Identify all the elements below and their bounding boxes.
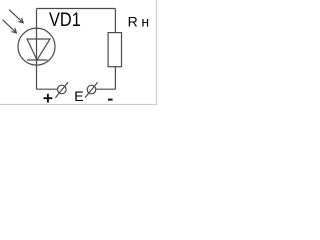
photodiode VD1 cathode bar (27, 59, 48, 61)
svg-text:н: н (141, 14, 149, 30)
wire right vertical from top to resistor (114, 9, 116, 33)
photodiode VD1 circle (18, 28, 55, 65)
minus sign (108, 99, 113, 101)
svg-text:E: E (74, 88, 83, 104)
photodiode VD1 triangle (27, 39, 50, 60)
cell border bottom (0, 104, 157, 106)
light arrow 2 shaft (3, 20, 17, 33)
plus sign (44, 97, 53, 99)
cell border right (156, 0, 158, 105)
resistor Rн body (108, 33, 121, 67)
wire right vertical to resistor (114, 67, 116, 90)
light arrow 1 shaft (9, 10, 23, 23)
terminal + circle (58, 85, 67, 94)
terminal + slash (55, 82, 68, 98)
wire top horizontal (37, 8, 116, 10)
terminal - slash (85, 82, 98, 98)
wire left vertical through VD1 (36, 9, 38, 90)
terminal - circle (87, 85, 96, 94)
light arrow 2 head (11, 28, 16, 33)
svg-text:VD1: VD1 (49, 10, 81, 31)
wire bottom right horizontal from - terminal (96, 88, 116, 90)
svg-text:R: R (128, 13, 138, 29)
light arrow 1 head (18, 18, 23, 23)
wire bottom left horizontal to + terminal (37, 88, 58, 90)
